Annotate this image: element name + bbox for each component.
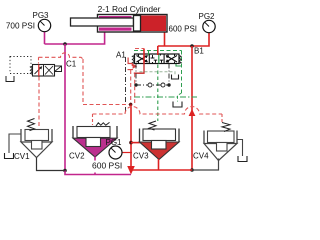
svg-text:600 PSI: 600 PSI: [169, 25, 197, 34]
pilot dashed line C1 to A1 node: [83, 104, 129, 106]
red B drop into valve top: [157, 46, 159, 55]
C1 right cell blocked: [45, 66, 53, 75]
cylinder rod: [71, 18, 134, 26]
CV1 outlet: [37, 158, 66, 171]
pilot dashed C1 down to CV1: [38, 77, 40, 129]
wire CV3 inlet: [131, 142, 144, 144]
green dashed enclosure top: [134, 50, 182, 52]
svg-text:600 PSI: 600 PSI: [92, 161, 122, 171]
pump arrow down: [127, 166, 135, 175]
gauge PG3: [32, 11, 50, 32]
C1 solenoid: [55, 66, 62, 72]
pilot dashed from C1 valve up: [38, 57, 40, 63]
CV1 spring: [28, 119, 35, 131]
green T port corner: [176, 64, 182, 67]
valve centre cell blocked ports: [151, 55, 164, 63]
svg-text:PG2: PG2: [198, 12, 215, 21]
svg-text:A1: A1: [116, 51, 126, 60]
green line below valve to CV3 pilot: [157, 65, 159, 122]
wire supply vertical magenta: [64, 44, 66, 171]
node B1 junction: [190, 44, 194, 48]
C1 dotted pilot box: [10, 57, 31, 74]
valve right cell crossed arrows: [166, 56, 177, 63]
valve C1: [6, 57, 62, 82]
C1 spring: [30, 66, 32, 74]
wire B1 vertical: [191, 46, 193, 170]
tank under green drain: [173, 102, 182, 108]
C1 body: [33, 65, 55, 77]
pilot dashed A1 branch verticals: [130, 70, 132, 105]
svg-text:PG3: PG3: [32, 11, 49, 20]
flow arrow up on B1 line: [189, 109, 196, 116]
node linkage right: [167, 83, 170, 86]
pilot dashed manifold to CV2/CV4: [93, 107, 223, 114]
cartridge valve CV3: [140, 121, 180, 170]
svg-text:C1: C1: [66, 60, 77, 69]
wire A1 port line: [134, 64, 144, 74]
green dash-dot bottom line: [134, 96, 197, 98]
pilot dashed drop to CV4 spring: [221, 114, 223, 122]
gauge PG2: [198, 12, 215, 33]
red pilot through C1: [38, 65, 40, 77]
CV3 spring: [149, 121, 156, 130]
valve left spring: [132, 56, 134, 64]
node CV1 bottom junction: [63, 169, 67, 173]
svg-text:B1: B1: [194, 47, 204, 56]
svg-text:CV3: CV3: [133, 152, 149, 161]
green line through valve centre: [158, 55, 160, 64]
valve port ticks: [139, 54, 175, 64]
node CV3 inlet junction: [129, 141, 133, 145]
label 600 PSI bottom: [91, 161, 124, 173]
wire rod-side horizontal: [45, 32, 105, 45]
CV3 outlet: [158, 159, 160, 170]
wire supply red vertical to pump: [130, 105, 132, 167]
green dashed enclosure right: [181, 51, 183, 94]
CV4 drain right: [237, 140, 243, 157]
drain dashed line under valve: [140, 72, 176, 75]
wire rod-side line PG3 drop: [44, 32, 46, 45]
svg-text:CV4: CV4: [193, 152, 209, 161]
directional valve U1 body: [135, 54, 180, 64]
pilot actuator glyph A1: [128, 58, 132, 67]
node bottom right junction: [190, 168, 194, 172]
wire magenta bottom manifold: [65, 171, 131, 175]
red dashes feeding valve path: [135, 48, 144, 50]
CV4 outlet: [192, 159, 219, 171]
linkage dash-dot right drop: [168, 64, 170, 86]
linkage dash-dot left drop: [135, 64, 137, 86]
green T-port riser into valve: [148, 51, 150, 56]
red P->A path through valve: [143, 49, 145, 64]
C1 tank: [6, 76, 14, 82]
dash-dot vertical from A1 area: [125, 57, 127, 114]
cartridge valve CV2: [73, 122, 117, 174]
CV4 spring: [222, 123, 230, 132]
svg-text:CV2: CV2: [69, 152, 85, 161]
svg-text:700 PSI: 700 PSI: [6, 22, 35, 31]
cartridge valve CV4: [192, 123, 247, 171]
node rod-line junction: [63, 42, 67, 46]
CV1 drain left: [9, 134, 21, 153]
cylinder body: [98, 15, 168, 33]
linkage connector circle left: [148, 83, 152, 87]
CV2 outlet: [94, 157, 96, 175]
gauge PG1: [105, 138, 132, 159]
C1 left cell arrow: [35, 67, 43, 75]
tank under valve: [172, 75, 179, 80]
cylinder piston: [134, 16, 141, 32]
linkage connector circle right: [161, 83, 165, 87]
valve left cell crossed arrows: [137, 56, 148, 63]
CV2 spring: [96, 122, 110, 126]
pilot dashed drop to CV2 spring: [92, 114, 94, 125]
green drain to tank: [178, 93, 182, 102]
valve right spring: [179, 56, 181, 64]
wire CV3/CV4 bottom red manifold: [131, 169, 192, 171]
pilot dashed top run with bridge over supply line: [39, 53, 84, 59]
wire piston-side horizontal: [158, 33, 209, 46]
svg-text:2-1 Rod Cylinder: 2-1 Rod Cylinder: [98, 4, 161, 14]
node pilot junction: [129, 103, 132, 106]
svg-text:CV1: CV1: [14, 152, 30, 161]
linkage dash-dot horizontal: [136, 84, 169, 86]
node linkage left: [134, 83, 137, 86]
wire piston-side drop from cylinder: [164, 32, 166, 46]
cartridge valve CV1: [5, 119, 66, 171]
